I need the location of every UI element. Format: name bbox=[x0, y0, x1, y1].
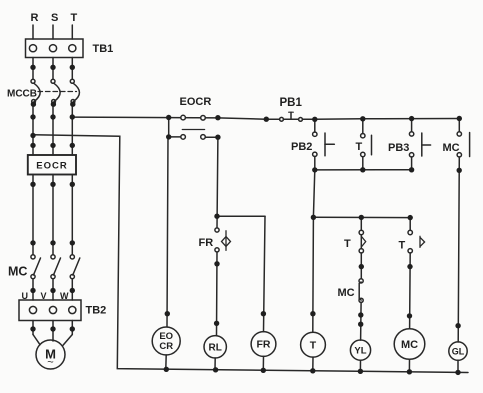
svg-text:EOCR: EOCR bbox=[180, 96, 212, 108]
svg-text:U: U bbox=[22, 291, 29, 301]
svg-text:T: T bbox=[71, 12, 78, 24]
svg-text:MC: MC bbox=[443, 142, 460, 154]
svg-text:MCCB: MCCB bbox=[7, 89, 37, 100]
svg-text:PB1: PB1 bbox=[280, 97, 303, 109]
svg-text:MC: MC bbox=[338, 287, 355, 299]
svg-text:MC: MC bbox=[8, 265, 27, 279]
svg-text:CR: CR bbox=[159, 341, 173, 352]
svg-text:~: ~ bbox=[47, 357, 53, 369]
svg-text:T: T bbox=[356, 141, 363, 153]
svg-text:PB2: PB2 bbox=[291, 141, 312, 153]
svg-text:T: T bbox=[344, 238, 351, 250]
svg-text:GL: GL bbox=[452, 346, 465, 356]
svg-text:YL: YL bbox=[354, 346, 366, 357]
svg-text:FR: FR bbox=[199, 237, 214, 249]
svg-text:W: W bbox=[60, 291, 69, 301]
svg-text:R: R bbox=[31, 12, 39, 24]
svg-text:S: S bbox=[51, 12, 58, 24]
svg-text:TB2: TB2 bbox=[86, 305, 107, 317]
svg-text:PB3: PB3 bbox=[388, 142, 409, 154]
svg-text:V: V bbox=[41, 291, 47, 301]
svg-text:EOCR: EOCR bbox=[36, 160, 67, 171]
svg-text:RL: RL bbox=[209, 343, 222, 354]
svg-text:MC: MC bbox=[401, 339, 418, 351]
svg-text:TB1: TB1 bbox=[93, 43, 114, 55]
svg-text:FR: FR bbox=[257, 339, 271, 351]
svg-text:T: T bbox=[399, 240, 406, 252]
svg-text:T: T bbox=[310, 339, 317, 351]
